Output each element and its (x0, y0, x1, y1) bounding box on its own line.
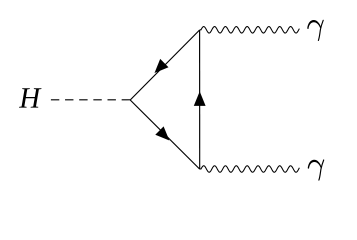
photon wavy line (bottom) (200, 166, 300, 173)
photon wavy line (top) (200, 27, 300, 34)
fermion line: top vertex to left vertex (130, 30, 199, 100)
arrow on upper-left fermion line (155, 59, 169, 73)
higgs propagator (dashed scalar line) (51, 99, 130, 101)
fermion line: bottom vertex to top vertex (199, 30, 201, 169)
label H (Higgs boson) (19, 88, 42, 107)
label gamma (bottom photon) (308, 160, 324, 180)
arrow on lower-left fermion line (155, 126, 169, 140)
arrow on right fermion line (194, 91, 206, 106)
fermion line: left vertex to bottom vertex (130, 100, 200, 169)
label gamma (top photon) (307, 20, 323, 40)
